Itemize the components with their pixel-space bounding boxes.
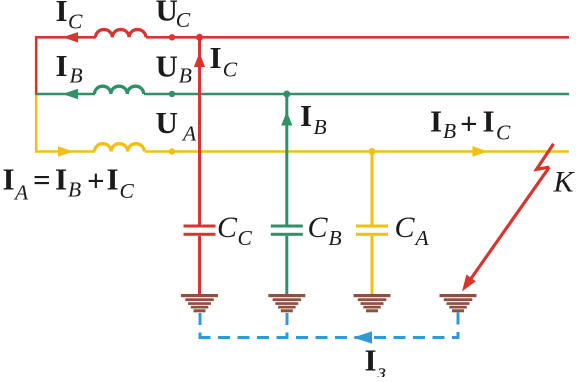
wire CA branch vertical (upper): [371, 152, 374, 225]
arrow IB on phase B (left): [63, 89, 79, 99]
svg-text:B: B: [179, 64, 192, 88]
svg-text:C: C: [395, 211, 416, 244]
capacitor CC: [184, 225, 216, 236]
svg-text:C: C: [68, 10, 83, 34]
svg-text:C: C: [120, 179, 135, 203]
svg-text:C: C: [238, 226, 253, 250]
capacitor CA: [356, 225, 388, 236]
label Iz (earth current): [365, 343, 386, 382]
svg-text:I: I: [107, 162, 119, 197]
svg-text:U: U: [156, 0, 178, 28]
label CC: [217, 211, 253, 250]
label IA = IB + IC (bottom left): [3, 162, 135, 205]
wire CB branch vertical (upper): [285, 94, 288, 225]
label UA: [156, 105, 198, 145]
svg-text:з: з: [377, 359, 386, 377]
wire CA branch vertical (lower): [371, 236, 374, 295]
fault K lightning bolt: [537, 144, 554, 170]
svg-text:B: B: [68, 178, 81, 202]
junction dot phase C / CC branch: [196, 34, 203, 41]
svg-text:I: I: [210, 40, 222, 75]
node UB dot: [169, 91, 175, 97]
svg-text:B: B: [329, 226, 342, 250]
wire phase B bus: [35, 93, 569, 96]
wire left vertical (phase C to B): [35, 36, 38, 95]
inductor LA: [95, 144, 145, 152]
arrow IB up on CB branch: [281, 112, 292, 126]
svg-text:A: A: [13, 181, 29, 205]
svg-text:I: I: [3, 162, 15, 197]
wire CB branch vertical (lower): [285, 236, 288, 295]
earth return dashed wire (vertical from fault ground): [457, 313, 460, 338]
label IC (top left): [56, 0, 84, 34]
svg-text:I: I: [430, 104, 442, 139]
label IB (branch arrow): [300, 98, 327, 139]
label IB (left): [56, 48, 83, 88]
capacitor CB: [271, 225, 303, 236]
fault arrowhead: [462, 275, 476, 292]
label CB: [308, 211, 342, 250]
arrow IA on phase A (left, rightward): [58, 146, 74, 156]
ground (fault K): [440, 294, 477, 312]
svg-text:I: I: [483, 104, 495, 139]
arrow Iz on earth return (leftward): [353, 331, 372, 343]
wire CC branch vertical (upper): [198, 37, 201, 225]
wire phase C bus: [35, 36, 569, 39]
svg-text:I: I: [55, 162, 67, 197]
label IB+IC (top right): [430, 104, 511, 145]
inductor LB: [95, 86, 144, 94]
svg-text:C: C: [496, 121, 511, 145]
wire CC branch vertical (lower): [198, 236, 201, 295]
earth return dashed wire (horizontal): [199, 336, 460, 339]
wire left vertical (phase B to A): [35, 94, 38, 153]
svg-text:B: B: [314, 115, 327, 139]
node UC dot: [169, 34, 175, 40]
svg-text:K: K: [553, 166, 576, 199]
wire phase A bus: [35, 150, 569, 153]
svg-text:C: C: [308, 211, 329, 244]
ground (CA): [354, 294, 391, 312]
svg-text:+: +: [460, 106, 478, 141]
inductor LC: [96, 29, 146, 37]
fault arrow shaft to ground: [470, 167, 549, 280]
svg-text:U: U: [156, 105, 178, 140]
svg-text:A: A: [414, 226, 430, 250]
junction dot phase A / CA branch: [369, 148, 376, 155]
label IC (branch arrow): [210, 40, 238, 82]
arrow IB+IC on phase A (right, rightward): [473, 146, 489, 156]
label UB: [156, 48, 192, 87]
arrow IC on phase C (left): [63, 32, 79, 42]
node UA dot: [169, 148, 175, 154]
earth return dashed wire (vertical from CC ground): [199, 313, 202, 338]
svg-text:+: +: [87, 163, 105, 198]
earth return dashed wire (vertical from CB ground): [286, 313, 289, 338]
svg-text:C: C: [217, 211, 238, 244]
svg-text:I: I: [56, 0, 68, 28]
label UC: [156, 0, 191, 32]
label CA: [395, 211, 430, 250]
svg-text:=: =: [33, 162, 51, 197]
svg-text:I: I: [300, 98, 312, 133]
svg-text:I: I: [365, 343, 377, 378]
svg-text:C: C: [176, 8, 191, 32]
junction dot phase B / CB branch: [283, 91, 290, 98]
svg-text:B: B: [70, 64, 83, 88]
svg-text:I: I: [56, 48, 68, 83]
ground (CC): [181, 294, 218, 312]
svg-text:C: C: [223, 58, 238, 82]
svg-text:A: A: [181, 122, 197, 146]
svg-text:B: B: [443, 119, 456, 143]
svg-text:U: U: [156, 48, 178, 83]
ground (CB): [268, 294, 305, 312]
arrow IC up on CC branch: [194, 53, 205, 68]
